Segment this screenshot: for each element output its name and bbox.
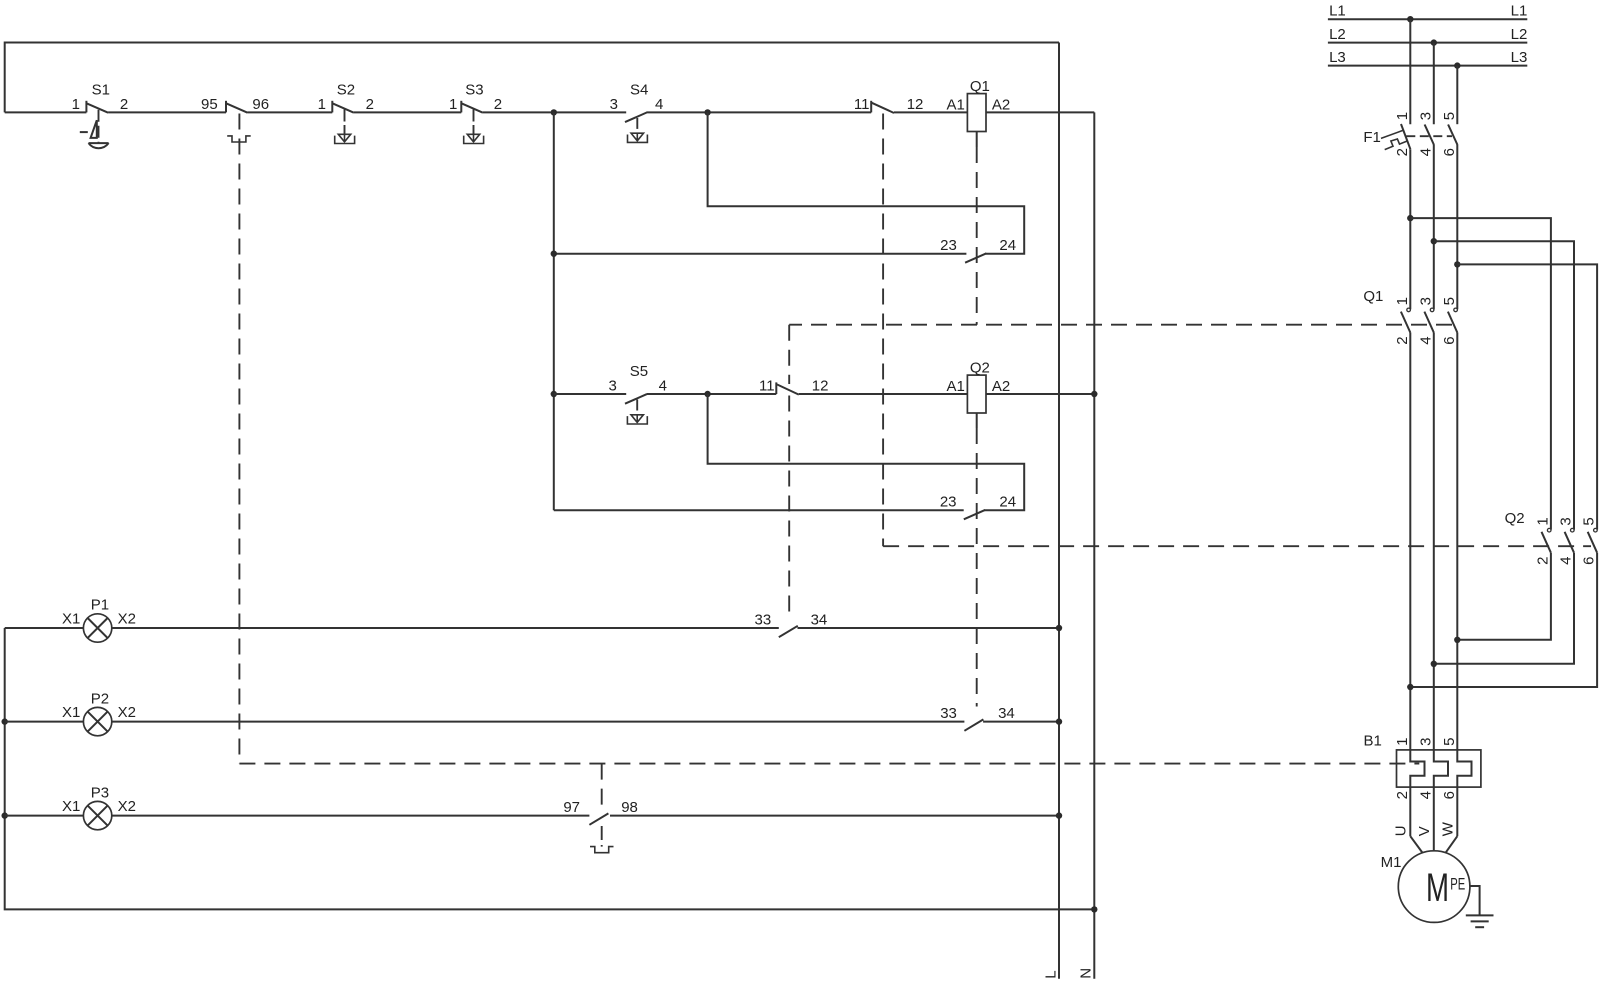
contactor Q1 main contacts (3-pole NO)	[1363, 288, 1457, 345]
svg-text:1: 1	[72, 96, 80, 113]
node junction Q2 output / phase V	[1431, 661, 1437, 667]
wire Q2 pole 1 output to phase W	[1457, 553, 1551, 640]
svg-text:A1: A1	[947, 378, 965, 395]
svg-text:6: 6	[1441, 148, 1458, 156]
svg-text:24: 24	[999, 237, 1016, 254]
svg-text:4: 4	[1417, 148, 1434, 156]
svg-text:34: 34	[811, 612, 828, 629]
svg-text:23: 23	[940, 237, 957, 254]
svg-text:96: 96	[252, 96, 269, 113]
node junction L3 tap	[1454, 62, 1460, 68]
svg-text:P2: P2	[91, 690, 109, 707]
wire crossover feed to Q2 pole 3	[1457, 264, 1597, 529]
svg-text:1: 1	[1534, 517, 1551, 525]
lamp P3 (indicator lamp)	[5, 784, 590, 830]
contact 97-98 (B1 NO trip contact, lamp P3)	[563, 799, 1059, 825]
node junction 554 / 23-24 row	[551, 251, 557, 257]
svg-text:X1: X1	[62, 610, 80, 627]
svg-text:3: 3	[1417, 297, 1434, 305]
svg-text:3: 3	[610, 96, 618, 113]
svg-text:S2: S2	[337, 82, 355, 99]
node junction Q2-A2 on N rail	[1091, 391, 1097, 397]
svg-text:2: 2	[366, 96, 374, 113]
node junction crossover tap L2	[1431, 238, 1437, 244]
wire crossover feed to Q2 pole 2	[1434, 241, 1574, 529]
svg-text:X1: X1	[62, 704, 80, 721]
switch S3 (NC pushbutton)	[449, 82, 502, 144]
breaker F1 (3-pole motor protection switch)	[1363, 112, 1457, 157]
svg-text:X2: X2	[118, 798, 136, 815]
svg-text:M1: M1	[1381, 854, 1402, 871]
wire phase V vertical segments	[1433, 43, 1435, 851]
contact 11-12 (Q1 NC interlock in Q2 branch)	[759, 378, 828, 395]
svg-text:Q2: Q2	[970, 360, 990, 377]
svg-text:F1: F1	[1363, 129, 1381, 146]
node junction P1 row / L rail	[1056, 625, 1062, 631]
contact 33-34 (Q1 NO auxiliary, lamp P1)	[755, 612, 1059, 638]
thermal release symbol of 97-98	[590, 847, 614, 853]
svg-text:4: 4	[655, 96, 663, 113]
svg-text:34: 34	[998, 705, 1015, 722]
switch S1 (NC, with release actuator)	[72, 82, 129, 149]
node junction crossover tap L1	[1407, 215, 1413, 221]
svg-text:S5: S5	[630, 363, 648, 380]
svg-text:4: 4	[1417, 791, 1434, 799]
svg-text:2: 2	[1394, 336, 1411, 344]
node junction P3 row / L rail	[1056, 812, 1062, 818]
wire supply line L3	[1328, 49, 1527, 66]
thermal release symbol of 95-96	[227, 136, 251, 142]
svg-text:1: 1	[1394, 297, 1411, 305]
wire vertical branch x=554 row1 to row 23-24#2	[553, 112, 555, 510]
node junction left rail / P3 row	[1, 812, 7, 818]
svg-text:5: 5	[1441, 738, 1458, 746]
node junction bottom wire / N rail	[1091, 906, 1097, 912]
svg-text:6: 6	[1441, 791, 1458, 799]
svg-text:4: 4	[659, 378, 667, 395]
svg-text:12: 12	[907, 96, 924, 113]
svg-text:1: 1	[318, 96, 326, 113]
svg-text:X2: X2	[118, 704, 136, 721]
svg-text:V: V	[1416, 826, 1433, 836]
svg-text:3: 3	[608, 378, 616, 395]
motor M1 (3-phase motor)	[1381, 851, 1470, 923]
svg-text:U: U	[1392, 825, 1409, 836]
wire crossover feed to Q2 pole 1	[1410, 218, 1551, 529]
svg-text:L3: L3	[1511, 49, 1528, 66]
lamp P2 (indicator lamp)	[5, 690, 965, 736]
svg-text:11: 11	[759, 378, 775, 395]
svg-text:2: 2	[1534, 557, 1551, 565]
wire L rail vertical	[1058, 43, 1060, 979]
lamp P1 (indicator lamp)	[5, 597, 779, 643]
overload relay B1 (3-phase thermal)	[1363, 733, 1480, 800]
svg-text:A2: A2	[992, 378, 1010, 395]
svg-text:12: 12	[812, 378, 829, 395]
node junction Q2 output / phase W	[1454, 637, 1460, 643]
svg-text:L: L	[1043, 970, 1060, 978]
node junction Q2 output / phase U	[1407, 684, 1413, 690]
wire supply line L2	[1328, 26, 1527, 43]
svg-text:L1: L1	[1329, 3, 1346, 20]
svg-text:N: N	[1077, 968, 1094, 979]
node junction left rail / P2 row	[1, 718, 7, 724]
svg-text:P3: P3	[91, 784, 109, 801]
svg-text:L1: L1	[1511, 3, 1528, 20]
svg-text:Q2: Q2	[1505, 510, 1525, 527]
switch S5 (NO start pushbutton)	[608, 363, 666, 424]
svg-text:33: 33	[755, 612, 772, 629]
wire mechanical linkage B1 (overload relay, dashed)	[239, 114, 1419, 847]
svg-text:6: 6	[1441, 336, 1458, 344]
contactor Q2 main contacts (3-pole NO, reversing)	[1505, 510, 1598, 565]
wire motor leads U V W	[1392, 821, 1457, 852]
svg-text:X2: X2	[118, 610, 136, 627]
svg-text:W: W	[1439, 821, 1456, 836]
svg-text:33: 33	[940, 705, 957, 722]
coil Q2 (contactor coil)	[947, 360, 1011, 414]
svg-text:PE: PE	[1450, 875, 1465, 894]
svg-text:95: 95	[201, 96, 218, 113]
svg-text:3: 3	[1417, 738, 1434, 746]
svg-text:A1: A1	[947, 97, 965, 114]
contact 33-34 (Q2 NO auxiliary, lamp P2)	[940, 705, 1059, 731]
svg-text:2: 2	[1394, 148, 1411, 156]
svg-text:3: 3	[1558, 517, 1575, 525]
svg-text:X1: X1	[62, 798, 80, 815]
switch S4 (NO start pushbutton)	[610, 82, 664, 143]
svg-text:5: 5	[1581, 517, 1598, 525]
contact 95-96 (B1 overload NC contact)	[201, 96, 269, 113]
svg-text:2: 2	[494, 96, 502, 113]
switch S2 (NC pushbutton)	[318, 82, 374, 144]
wire control row 2 (S5 branch) segments	[554, 393, 1095, 395]
node junction at 707.6 row1	[704, 109, 710, 115]
wire N rail vertical	[1093, 112, 1095, 978]
svg-text:L2: L2	[1329, 26, 1346, 43]
wire loop from node2 to contact 23-24 of Q1	[708, 112, 1025, 253]
svg-text:1: 1	[449, 96, 457, 113]
wire phase W vertical segments	[1456, 66, 1458, 837]
wire mechanical linkage Q1 (coil to contacts, dashed)	[789, 132, 1452, 620]
node junction crossover tap L3	[1454, 261, 1460, 267]
svg-text:5: 5	[1441, 112, 1458, 120]
svg-text:Q1: Q1	[970, 78, 990, 95]
svg-text:M: M	[1426, 866, 1449, 910]
wire Q2 pole 2 output to phase V	[1434, 553, 1574, 664]
svg-text:4: 4	[1558, 557, 1575, 565]
ground symbol (PE earth)	[1466, 886, 1494, 927]
node junction 554 / S5 row	[551, 391, 557, 397]
svg-text:B1: B1	[1363, 733, 1381, 750]
contact 23-24 (Q2 NO auxiliary, self-hold)	[554, 494, 1016, 520]
svg-text:1: 1	[1394, 738, 1411, 746]
contact 23-24 (Q1 NO auxiliary, self-hold)	[554, 237, 1016, 263]
svg-text:P1: P1	[91, 597, 109, 614]
svg-text:1: 1	[1394, 112, 1411, 120]
svg-text:S4: S4	[630, 82, 648, 99]
svg-text:2: 2	[1394, 791, 1411, 799]
wire left return rail	[5, 628, 1095, 909]
svg-text:A2: A2	[992, 97, 1010, 114]
svg-text:L2: L2	[1511, 26, 1528, 43]
svg-text:L3: L3	[1329, 49, 1346, 66]
node junction L2 tap	[1431, 39, 1437, 45]
svg-text:97: 97	[563, 799, 580, 816]
wire L supply frame top	[5, 43, 1059, 113]
node L label	[1043, 970, 1060, 978]
wire loop from node2 to contact 23-24 of Q2	[708, 394, 1025, 510]
node N label	[1077, 968, 1094, 979]
svg-text:5: 5	[1441, 297, 1458, 305]
wire control row 1 segments	[5, 111, 1095, 113]
svg-text:24: 24	[999, 494, 1016, 511]
node junction L1 tap	[1407, 16, 1413, 22]
coil Q1 (contactor coil)	[947, 78, 1011, 132]
svg-text:4: 4	[1417, 336, 1434, 344]
wire supply line L1	[1328, 3, 1527, 20]
svg-text:S3: S3	[465, 82, 483, 99]
svg-text:98: 98	[621, 799, 638, 816]
svg-text:S1: S1	[92, 82, 110, 99]
wire mechanical linkage Q2 (interlock, coil to contacts, dashed)	[883, 114, 1591, 707]
svg-text:11: 11	[854, 96, 870, 113]
node junction 707.6 / S5 row	[704, 391, 710, 397]
node junction at 554 row1	[551, 109, 557, 115]
svg-text:23: 23	[940, 494, 957, 511]
svg-text:6: 6	[1581, 557, 1598, 565]
svg-text:2: 2	[120, 96, 128, 113]
svg-text:Q1: Q1	[1363, 288, 1383, 305]
wire Q2 pole 3 output to phase U	[1410, 553, 1597, 687]
svg-text:3: 3	[1417, 112, 1434, 120]
node junction P2 row / L rail	[1056, 718, 1062, 724]
contact 11-12 (Q2 NC interlock)	[854, 96, 923, 113]
wire phase U vertical segments	[1409, 19, 1411, 836]
